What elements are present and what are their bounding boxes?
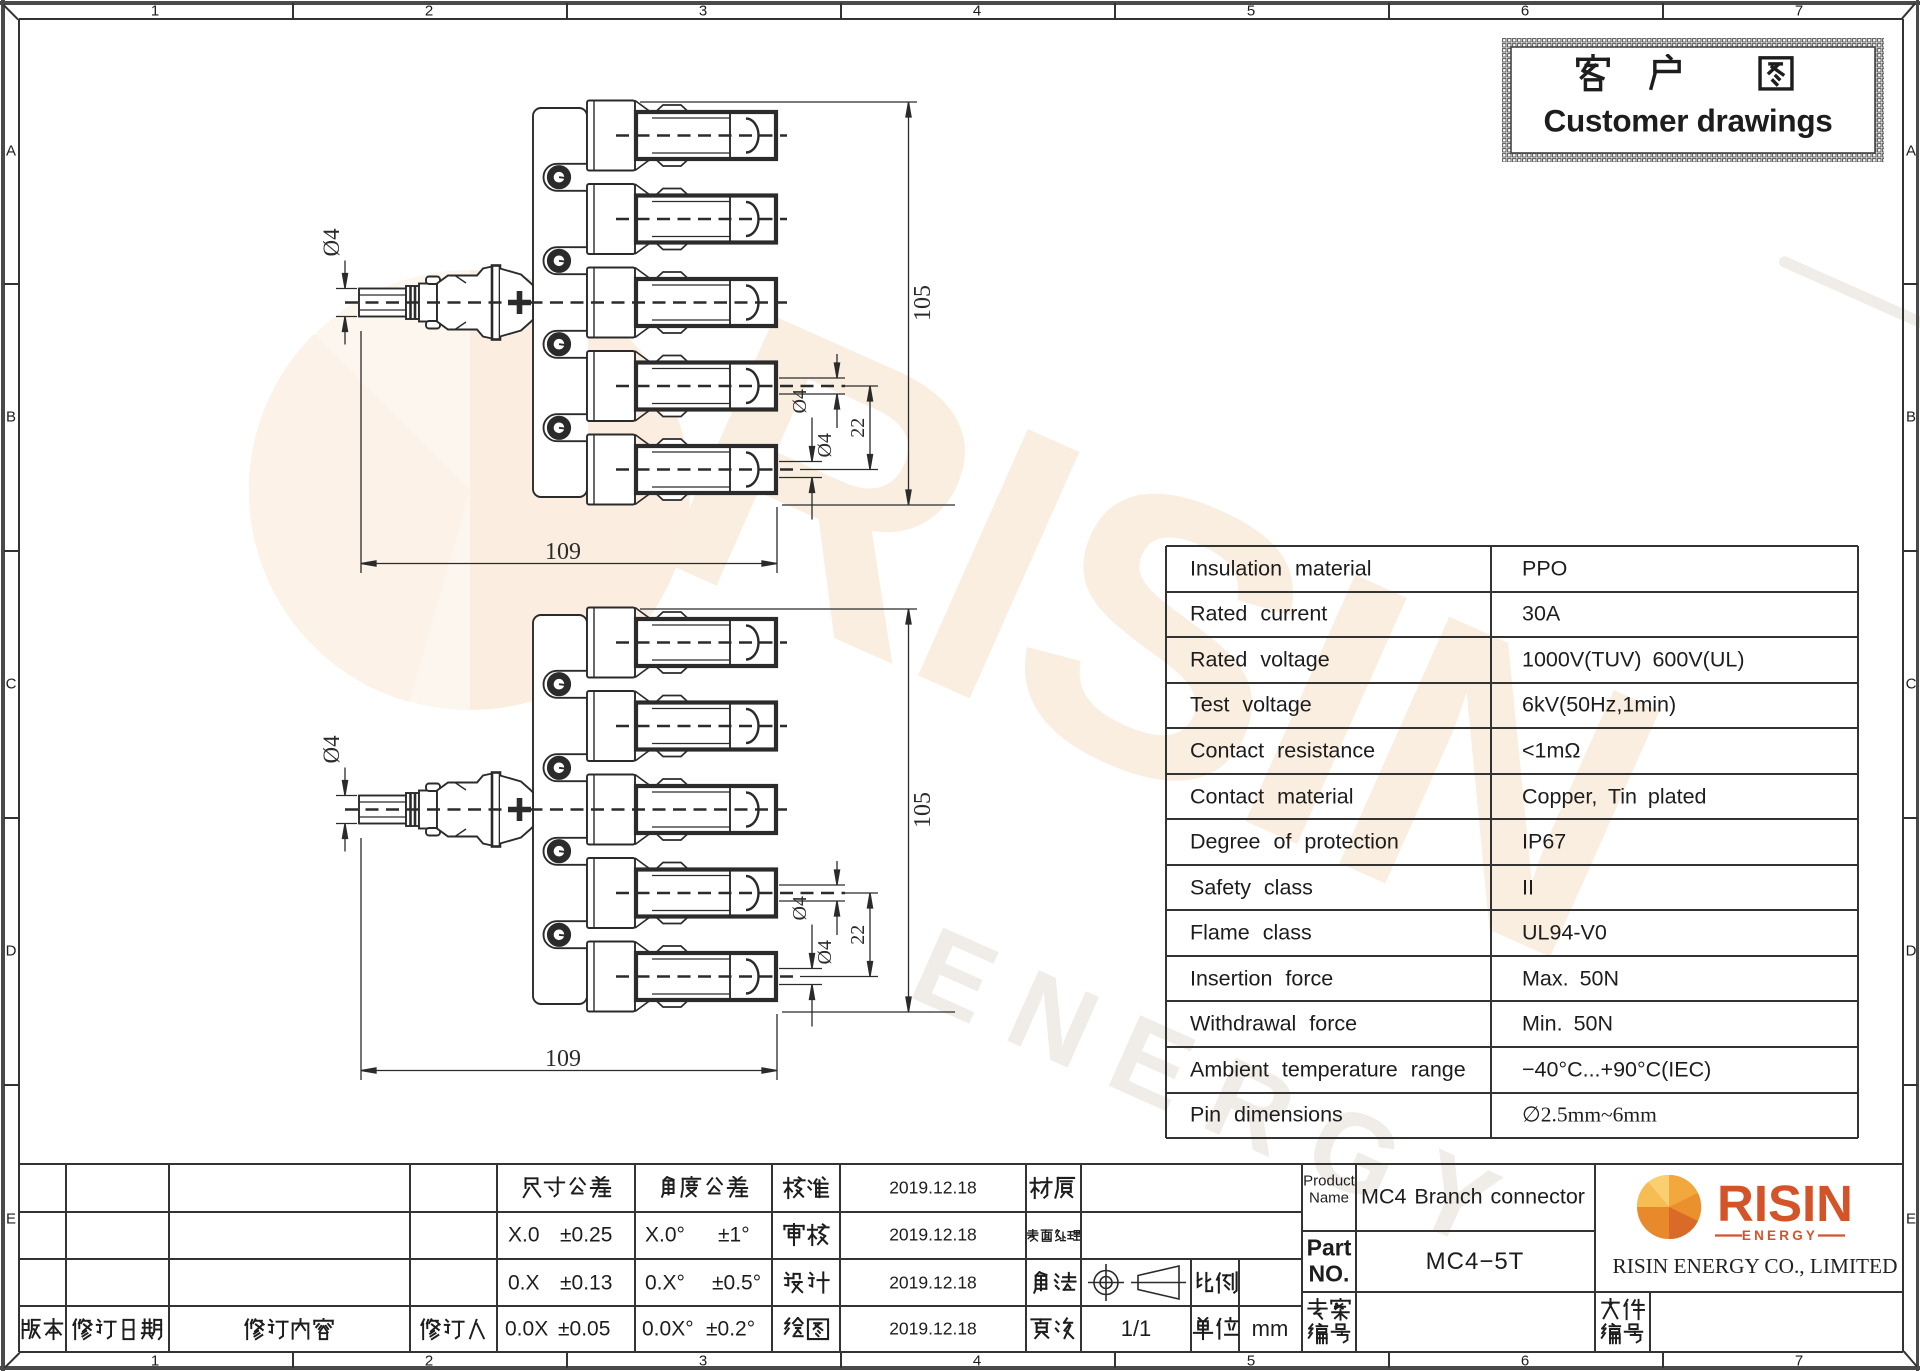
dim Ø4 branch4 <box>779 377 845 379</box>
socket tube <box>636 446 776 493</box>
customer drawings title box <box>1502 38 1884 162</box>
socket tube <box>636 870 776 917</box>
watermark logo circle <box>250 270 690 710</box>
dim 22 <box>845 385 878 387</box>
svg-text:Ø4: Ø4 <box>789 896 811 920</box>
rivet boss <box>544 921 589 948</box>
specification table <box>1166 545 1858 548</box>
sheet outer border <box>0 1 1920 5</box>
mid section <box>419 284 437 322</box>
cone body <box>437 267 492 339</box>
socket dome <box>746 286 759 320</box>
svg-text:Ø4: Ø4 <box>319 228 344 257</box>
connector view bottom <box>345 608 845 1012</box>
corner diagonals <box>3 4 19 20</box>
socket tube <box>636 619 776 666</box>
flange <box>492 773 500 847</box>
socket tube <box>636 786 776 833</box>
centerline main (pin row) <box>345 808 787 811</box>
dim Ø4 branch5 <box>779 461 822 463</box>
plus mark <box>508 798 531 821</box>
socket dome <box>746 960 759 994</box>
dim Ø4 branch4 <box>779 884 845 886</box>
centerline branch5 <box>616 975 800 978</box>
svg-text:Ø4: Ø4 <box>319 735 344 764</box>
male pin <box>359 796 406 824</box>
rivet <box>550 676 567 693</box>
dim 22 <box>845 892 878 894</box>
socket dome <box>746 876 759 910</box>
connector view top <box>319 101 955 574</box>
branch nut block <box>587 351 635 421</box>
centerline branch4 <box>616 385 845 388</box>
rivet <box>550 169 567 186</box>
dim 105 <box>640 608 917 610</box>
svg-text:105: 105 <box>910 285 936 321</box>
centerline branch1 <box>616 134 787 137</box>
rivet boss <box>544 838 589 865</box>
mid section <box>419 791 437 829</box>
svg-text:RISIN: RISIN <box>1717 1175 1853 1232</box>
branch nut block <box>587 184 635 254</box>
svg-text:RISIN ENERGY CO., LIMITED: RISIN ENERGY CO., LIMITED <box>1613 1254 1898 1278</box>
rivet boss <box>544 414 589 441</box>
rivet <box>550 759 567 776</box>
branch nut block <box>587 942 635 1012</box>
dim pin dia Ø4 <box>336 288 357 290</box>
branch nut block <box>587 858 635 928</box>
rivet boss <box>544 164 589 191</box>
projection symbol <box>1094 1271 1118 1295</box>
socket tube <box>636 196 776 243</box>
rivet boss <box>544 671 589 698</box>
branch nut block <box>587 775 635 845</box>
branch nut block <box>587 608 635 678</box>
cone body <box>437 774 492 846</box>
svg-text:ENERGY: ENERGY <box>1742 1228 1818 1243</box>
socket dome <box>746 119 759 153</box>
body plate <box>533 615 587 1004</box>
rivet <box>550 419 567 436</box>
svg-text:109: 109 <box>545 1046 581 1072</box>
centerline branch2 <box>616 218 787 221</box>
branch nut block <box>587 691 635 761</box>
plus mark <box>508 291 531 314</box>
dim 109 <box>360 331 362 573</box>
dim Ø4 branch5 <box>779 968 822 970</box>
socket dome <box>746 453 759 487</box>
centerline branch2 <box>616 725 787 728</box>
centerline branch5 <box>616 468 800 471</box>
male pin <box>359 289 406 317</box>
socket dome <box>746 626 759 660</box>
socket tube <box>636 953 776 1000</box>
rivet boss <box>544 247 589 274</box>
dim 109 <box>360 838 362 1080</box>
branch nut block <box>587 101 635 171</box>
logo circle <box>1637 1175 1701 1239</box>
socket dome <box>746 709 759 743</box>
flange <box>492 266 500 340</box>
bottom title block <box>19 1163 1903 1165</box>
rivet <box>550 926 567 943</box>
svg-text:105: 105 <box>910 792 936 828</box>
rivet <box>550 252 567 269</box>
RISIN logo <box>1595 1164 1903 1292</box>
svg-text:22: 22 <box>847 925 869 945</box>
svg-text:Ø4: Ø4 <box>814 940 836 964</box>
rear body <box>500 776 533 844</box>
pin collar bands <box>406 286 419 319</box>
centerline branch4 <box>616 892 845 895</box>
branch nut block <box>587 435 635 505</box>
pin collar bands <box>406 793 419 826</box>
body plate <box>533 108 587 497</box>
rivet <box>550 336 567 353</box>
branch nut block <box>587 268 635 338</box>
svg-text:109: 109 <box>545 539 581 565</box>
dim 105 <box>640 101 917 103</box>
socket tube <box>636 112 776 159</box>
watermark ENERGY <box>397 0 1920 1371</box>
rivet <box>550 843 567 860</box>
svg-text:Ø4: Ø4 <box>814 433 836 457</box>
socket dome <box>746 369 759 403</box>
centerline main (pin row) <box>345 301 787 304</box>
zone ticks and labels <box>292 3 294 19</box>
sheet inner border <box>19 18 1903 20</box>
socket tube <box>636 703 776 750</box>
dim pin dia Ø4 <box>336 795 357 797</box>
rivet boss <box>544 331 589 358</box>
svg-text:Ø4: Ø4 <box>789 389 811 413</box>
centerline branch1 <box>616 641 787 644</box>
rivet boss <box>544 754 589 781</box>
socket dome <box>746 793 759 827</box>
socket tube <box>636 279 776 326</box>
socket tube <box>636 363 776 410</box>
rear body <box>500 269 533 337</box>
socket dome <box>746 202 759 236</box>
svg-text:22: 22 <box>847 418 869 438</box>
